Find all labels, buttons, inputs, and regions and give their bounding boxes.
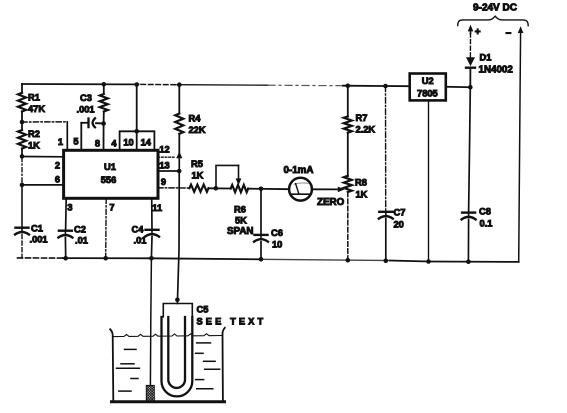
svg-text:8: 8 [95,139,100,149]
svg-text:C6: C6 [271,228,283,238]
capacitor C8 [462,207,493,229]
electrode wire [150,258,151,385]
wire U2 output to D1 node [446,86,471,88]
svg-text:C5: C5 [197,305,209,315]
svg-text:.01: .01 [75,236,88,246]
svg-text:7805: 7805 [417,89,438,99]
resistor R1 [18,93,45,115]
potentiometer R8 [344,176,368,200]
svg-text:C2: C2 [74,225,86,235]
svg-text:+: + [475,27,481,38]
svg-text:5K: 5K [235,216,247,226]
svg-text:11: 11 [152,203,162,213]
water marks [117,343,220,391]
capacitor C3 [77,93,104,150]
svg-text:1K: 1K [356,190,368,200]
wire meter to R8 wiper arrow [312,188,339,190]
resistor R5 [189,159,208,192]
U-tube probe [162,317,193,396]
svg-text:−: − [506,29,512,40]
svg-text:R4: R4 [189,114,202,124]
svg-text:5: 5 [73,137,78,147]
resistor R4 [178,85,180,114]
pins 10/14 box structure [120,131,155,150]
pin 7 wire to ground [105,198,108,258]
svg-text:U2: U2 [422,76,434,86]
pin number labels [55,137,170,214]
wire R6 to meter [248,188,289,191]
svg-text:R2: R2 [28,129,40,139]
svg-text:R5: R5 [191,159,203,169]
svg-text:.01: .01 [134,236,147,246]
pin 13 wire [158,170,179,172]
wire left rail lower [21,149,23,228]
wire R8 to ground [347,192,349,260]
svg-text:7: 7 [109,203,114,213]
svg-text:1: 1 [58,137,63,147]
top supply rail [22,84,410,86]
beaker [110,328,225,402]
svg-text:.001: .001 [77,105,95,115]
voltage regulator U2 7805 [410,74,446,101]
minus supply wire [519,32,521,262]
svg-text:3: 3 [67,203,72,213]
IC U1 556 [64,150,158,198]
svg-text:4: 4 [111,139,117,149]
water surface [114,334,222,337]
minus terminal arrow [506,26,524,39]
capacitor C4 [132,225,160,246]
svg-text:2: 2 [55,161,60,171]
svg-text:6: 6 [55,175,60,185]
svg-text:10: 10 [123,138,133,148]
resistor R2 [18,129,40,151]
svg-text:C8: C8 [479,207,491,217]
svg-text:C3: C3 [80,93,92,103]
svg-text:C4: C4 [132,225,145,235]
pin 9 output wire [158,187,189,189]
wire R2 node to pin2 [22,156,64,158]
diode D1 1N4002 [466,33,513,87]
wire C3 to pin5 [80,123,82,151]
svg-text:22K: 22K [189,125,206,135]
wire R1R2 node to pin1 [22,121,67,123]
wire left rail to pin6 [22,184,64,186]
capacitor C2 [58,225,88,246]
potentiometer R6 [216,165,254,236]
svg-text:ZERO: ZERO [317,197,345,208]
resistor R7 [344,113,376,135]
svg-text:C1: C1 [31,224,43,234]
svg-text:1K: 1K [28,141,40,151]
svg-text:U1: U1 [104,162,116,172]
svg-text:9-24V DC: 9-24V DC [473,3,517,14]
svg-text:2.2K: 2.2K [356,125,376,135]
svg-text:20: 20 [394,220,404,230]
svg-text:R6: R6 [234,205,246,215]
svg-text:47K: 47K [28,104,45,114]
meter M1 0-1mA [284,165,314,201]
capacitor C1 [15,224,48,245]
svg-text:R1: R1 [28,93,40,103]
wire top rail to pins 10/14 [136,85,138,132]
node R1/R2 junction [21,112,23,131]
left rail wire [21,84,23,93]
svg-text:D1: D1 [480,53,492,63]
svg-text:1N4002: 1N4002 [479,65,514,76]
wire C1 to ground [21,235,23,259]
wire R7 to R8 [347,133,349,176]
svg-text:1K: 1K [192,171,204,181]
wire U2 to ground [428,100,430,261]
svg-text:R8: R8 [355,178,367,188]
pin 12 wire with up arrow [158,156,176,158]
brace [458,16,529,26]
svg-text:SEE TEXT: SEE TEXT [197,317,267,327]
svg-text:9: 9 [161,177,166,187]
plus terminal arrow [468,25,481,39]
svg-text:556: 556 [101,175,117,185]
svg-text:14: 14 [141,138,152,148]
svg-text:10: 10 [272,240,282,250]
svg-text:13: 13 [159,161,169,171]
probe capacitor C5 [163,298,266,327]
svg-text:.001: .001 [30,235,48,245]
wire R4 down to pin13 node and probe [178,134,180,155]
svg-text:R7: R7 [356,113,368,123]
svg-text:12: 12 [159,145,169,155]
svg-text:0-1mA: 0-1mA [284,165,314,176]
capacitor C6 [260,189,262,235]
capacitor C7 column [385,86,387,210]
pin 3 wire to C2 [65,198,68,230]
ground rail junction dots [63,256,68,261]
pin 11 wire to C4 [151,198,153,230]
R7/R8 column top wire [347,86,349,117]
ground rail (bottom) [18,258,519,262]
electrode (hatched) [146,385,154,401]
resistor R3 (unlabeled) [103,84,105,94]
wire R3 to pin8 [103,124,105,151]
svg-text:C7: C7 [394,208,406,218]
svg-text:0.1: 0.1 [480,219,493,229]
svg-text:SPAN: SPAN [227,226,254,237]
wire D1 node to C8 [469,87,471,212]
wire R5 to R6 [209,187,231,189]
